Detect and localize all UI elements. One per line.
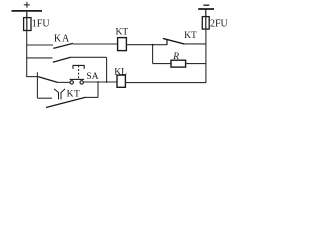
wire resistor branch drop (152, 45, 154, 64)
relay coil KL (117, 75, 125, 87)
svg-text:1FU: 1FU (32, 18, 51, 29)
wire bottom row right (85, 96, 98, 98)
relay contact row3 (38, 77, 57, 83)
node row2 drop junction (106, 81, 108, 83)
wire row1 to KT coil (73, 43, 118, 45)
wire from right bus into fuse (205, 9, 207, 29)
svg-text:KT: KT (67, 90, 81, 100)
right bus bar (198, 8, 214, 10)
wire branch to bottom row (36, 72, 38, 98)
positive supply terminal + (24, 2, 30, 8)
wire SA to KL coil (83, 81, 117, 83)
node resistor branch junction (152, 44, 154, 46)
switch SA (70, 65, 85, 84)
node bottom branch junction (97, 81, 99, 83)
wire row3 to SA (58, 81, 70, 83)
relay contact KT (shorting contact) (163, 39, 184, 45)
svg-text:KT: KT (184, 31, 197, 41)
wire bottom riser (97, 82, 99, 97)
wire row2 left (26, 57, 52, 59)
wire KT coil to contact (126, 44, 167, 46)
time relay coil KT (118, 38, 127, 51)
wire row3 left (26, 76, 38, 78)
wire KT contact to right rail (184, 43, 206, 45)
right rail wire (205, 29, 207, 83)
fuse 2FU (202, 17, 209, 30)
resistor R (171, 60, 186, 67)
wire row2 drop (106, 57, 108, 82)
svg-text:SA: SA (86, 72, 98, 82)
wire from left bus into fuse (26, 12, 28, 31)
wire KL to right rail (125, 82, 206, 84)
svg-text:2FU: 2FU (210, 18, 229, 29)
wire resistor left (153, 63, 171, 65)
left bus bar (12, 10, 43, 12)
negative supply terminal - (203, 4, 209, 6)
wire resistor right (186, 63, 207, 65)
wire row1 left (26, 44, 53, 46)
fuse 1FU (24, 18, 31, 31)
svg-text:KT: KT (115, 27, 128, 37)
left rail wire (26, 31, 28, 77)
svg-text:KA: KA (54, 33, 70, 44)
wire bottom row left (37, 97, 52, 99)
relay contact row2 (53, 57, 71, 62)
time-delay contact KT (delayed closing) (46, 89, 86, 108)
wire row2 right (70, 56, 106, 58)
relay contact KA (53, 43, 73, 48)
